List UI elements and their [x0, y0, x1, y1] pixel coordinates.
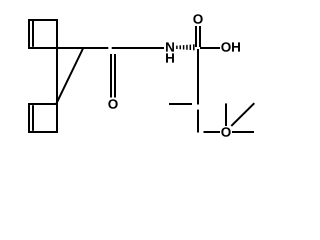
atom label N (amide): [166, 42, 174, 51]
atom label O (ether): [221, 127, 230, 137]
bond O-methyl up: [225, 103, 227, 126]
cyclobutene ring 2 (bottom-left square): [29, 104, 57, 132]
cyclopropane diagonal bond C-B: [56, 49, 83, 105]
stereo hash wedge N-Calpha: [177, 44, 194, 50]
bond carbonyl-N: [112, 47, 164, 49]
acid C=O double bond line 1: [195, 26, 197, 47]
cyclobutene ring 1 (top-left square): [29, 20, 57, 48]
cyclobutene ring 1 inner double-bond line: [32, 21, 34, 47]
bond Calpha-Cbeta down: [197, 49, 199, 105]
atom label H (of OH): [232, 42, 240, 51]
bond O-methyl diagonal: [231, 103, 254, 126]
atom label O (acid carbonyl): [193, 14, 202, 24]
bond C-OH: [200, 47, 220, 49]
atom label H (on N): [166, 53, 174, 62]
acid C=O double bond line 2: [199, 26, 201, 47]
cyclobutene ring 2 inner double-bond line: [32, 105, 34, 131]
bond O-methyl right: [232, 131, 254, 133]
atom label O (amide carbonyl): [108, 99, 117, 109]
bond Cbeta-Cgamma down: [197, 110, 199, 133]
main chain horizontal bond A-C to amide carbonyl: [29, 47, 108, 49]
bond Cgamma-O ether: [204, 131, 221, 133]
amide carbonyl C=O double bond line 1: [110, 54, 112, 98]
atom label O (of OH): [221, 42, 230, 52]
amide carbonyl C=O double bond line 2: [114, 54, 116, 98]
bond Cbeta-methyl left: [169, 103, 192, 105]
cyclopropane vertical bond A-B: [56, 48, 58, 104]
